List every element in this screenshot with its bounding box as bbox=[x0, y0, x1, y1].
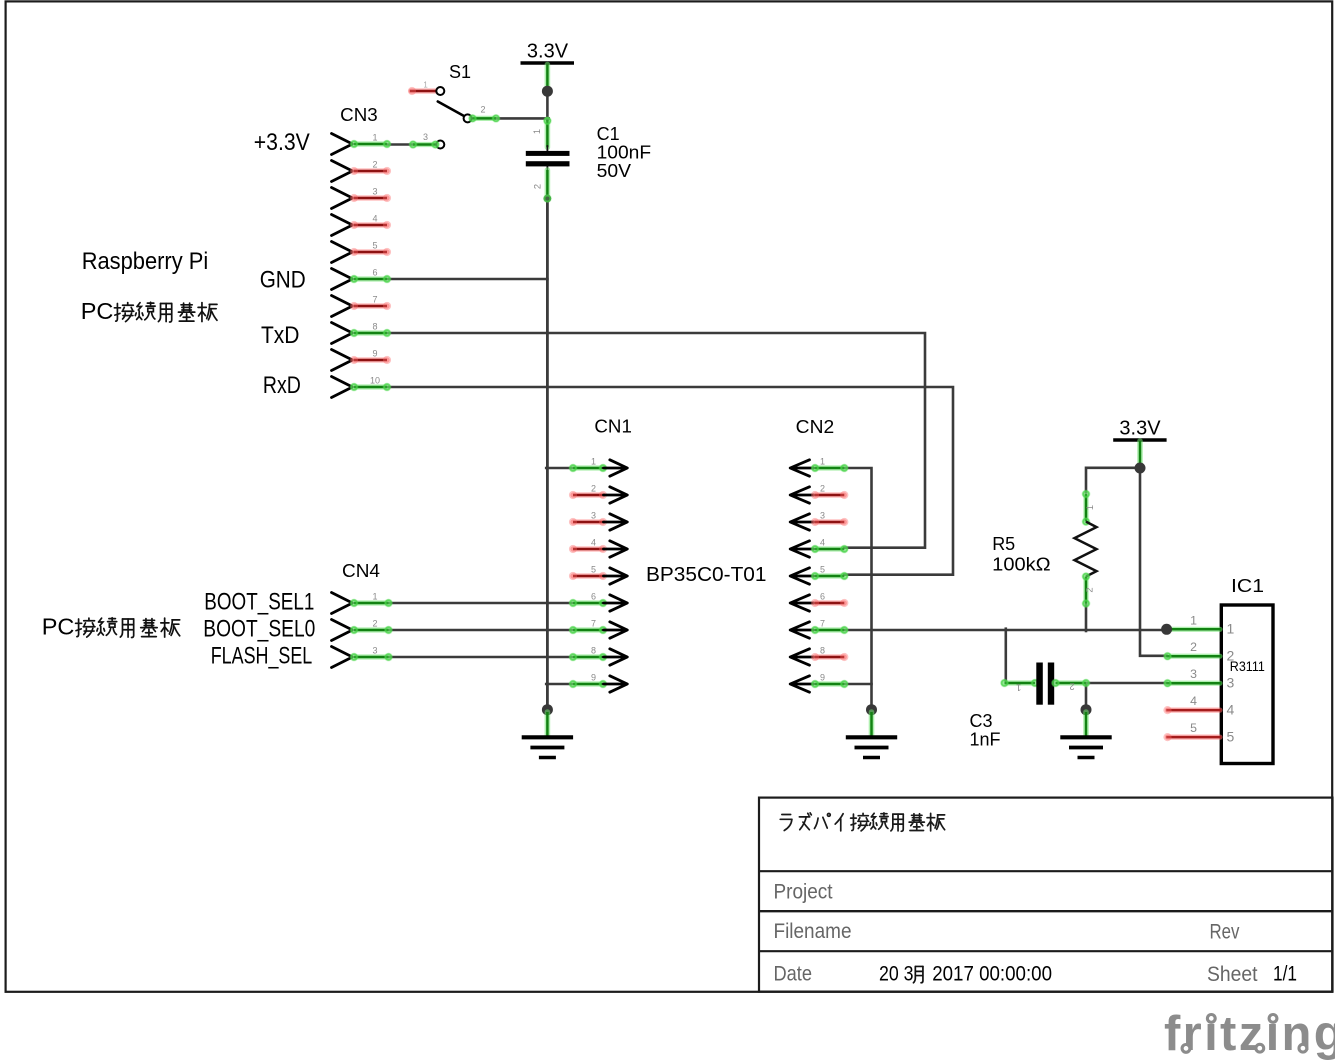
connector CN3 pin 2 bbox=[332, 160, 392, 182]
svg-text:20 3: 20 3 bbox=[879, 963, 914, 986]
svg-text:4: 4 bbox=[591, 538, 596, 548]
svg-text:4: 4 bbox=[1227, 701, 1235, 717]
node junction bus at IC1 pin1 bbox=[1161, 624, 1172, 635]
svg-text:3: 3 bbox=[423, 132, 428, 142]
wire FLASH_SEL net bbox=[389, 656, 572, 658]
svg-text:5: 5 bbox=[372, 241, 377, 251]
capacitor C3 right plate bbox=[1048, 663, 1054, 705]
svg-text:1: 1 bbox=[372, 133, 377, 143]
svg-text:8: 8 bbox=[591, 646, 596, 656]
capacitor C1 value 100nF bbox=[597, 142, 652, 162]
wire BOOT_SEL0 net bbox=[389, 629, 572, 631]
svg-text:2: 2 bbox=[372, 160, 377, 170]
title block divider 1 bbox=[759, 870, 1333, 872]
wire main vertical (C1 pin2 to CN1 ground junction) bbox=[546, 199, 549, 710]
svg-text:2: 2 bbox=[1190, 640, 1197, 654]
connector CN2 pin 6 bbox=[790, 592, 848, 612]
op-amp IC1 label bbox=[1231, 576, 1264, 596]
title block divider 3 bbox=[759, 950, 1333, 952]
op-amp IC1 pin 1 bbox=[1163, 613, 1234, 636]
op-amp IC1 pin 4 bbox=[1163, 694, 1234, 717]
svg-text:1: 1 bbox=[1227, 621, 1235, 637]
capacitor C1 pin2 green lead bbox=[545, 170, 551, 199]
connector CN2 pin 1 bbox=[790, 457, 848, 477]
connector CN3 pin 4 bbox=[332, 214, 392, 236]
svg-text:PC: PC bbox=[42, 614, 75, 640]
svg-text:BP35C0-T01: BP35C0-T01 bbox=[646, 563, 767, 586]
svg-text:1: 1 bbox=[1016, 682, 1021, 692]
op-amp IC1 value R3111 bbox=[1230, 659, 1265, 674]
capacitor C1 pin2 nub bbox=[546, 166, 548, 171]
svg-text:8: 8 bbox=[372, 322, 377, 332]
connector CN4 pin 3 bbox=[332, 646, 393, 668]
connector CN2 pin 7 bbox=[790, 619, 848, 639]
connector CN1 pin 5 bbox=[569, 565, 627, 585]
connector CN1 pin 3 bbox=[569, 511, 627, 531]
connector CN3 pin 3 bbox=[332, 187, 392, 209]
connector CN4 label bbox=[342, 561, 380, 581]
node junction below 3.3V top bbox=[542, 86, 553, 97]
connector CN2 pin 8 bbox=[790, 646, 848, 666]
node C1 pin2 wire junction bbox=[543, 194, 552, 203]
svg-text:FLASH_SEL: FLASH_SEL bbox=[211, 643, 313, 670]
switch S1 pin3 terminal circle bbox=[436, 141, 444, 149]
svg-text:4: 4 bbox=[372, 214, 377, 224]
wire RxD CN3 pin10 to CN2 pin5 bbox=[387, 387, 953, 575]
svg-text:Sheet: Sheet bbox=[1207, 963, 1258, 986]
connector CN1 pin 9 bbox=[569, 673, 628, 693]
title block divider 2 bbox=[759, 910, 1333, 912]
op-amp IC1 pin 5 bbox=[1163, 721, 1234, 744]
svg-text:3: 3 bbox=[372, 187, 377, 197]
svg-text:2: 2 bbox=[533, 184, 543, 189]
svg-text:frıtzıng: frıtzıng bbox=[1164, 1007, 1335, 1061]
wire GND CN3 pin6 to main vertical bbox=[387, 278, 547, 281]
wire C3 pin2 to IC1 pin3 bbox=[1086, 682, 1167, 685]
svg-text:100kΩ: 100kΩ bbox=[992, 555, 1050, 575]
svg-text:1: 1 bbox=[1190, 613, 1197, 627]
connector CN3 pin 7 bbox=[332, 295, 392, 317]
svg-text:4: 4 bbox=[1190, 694, 1197, 708]
svg-text:2: 2 bbox=[1069, 682, 1074, 692]
net label BOOT_SEL1 bbox=[204, 589, 314, 616]
connector CN3 label bbox=[340, 105, 378, 125]
connector CN1 pin 4 bbox=[569, 538, 627, 558]
capacitor C3 pin2 green lead bbox=[1051, 679, 1090, 688]
connector CN1 pin 2 bbox=[569, 484, 627, 504]
connector CN3 pin 5 bbox=[332, 241, 392, 263]
connector CN1 pin 8 bbox=[569, 646, 628, 666]
wire R5 bottom to bus bbox=[1085, 605, 1088, 632]
svg-text:R3111: R3111 bbox=[1230, 659, 1265, 674]
svg-text:CN3: CN3 bbox=[340, 105, 378, 125]
svg-text:BOOT_SEL1: BOOT_SEL1 bbox=[204, 589, 314, 616]
svg-text:TxD: TxD bbox=[261, 322, 300, 349]
title block sheet number bbox=[1273, 963, 1297, 986]
text PC接続用基板 (upper) bbox=[81, 298, 217, 324]
svg-text:2: 2 bbox=[820, 484, 825, 494]
svg-text:CN2: CN2 bbox=[796, 417, 835, 437]
svg-text:3: 3 bbox=[820, 511, 825, 521]
svg-text:C3: C3 bbox=[970, 711, 993, 731]
switch S1 pin2 green lead bbox=[468, 114, 500, 123]
op-amp IC1 pin 2 bbox=[1163, 640, 1234, 663]
switch S1 pin2 number bbox=[480, 105, 485, 115]
svg-text:S1: S1 bbox=[449, 62, 471, 82]
title block sheet title bbox=[780, 813, 944, 831]
net label BOOT_SEL0 bbox=[203, 616, 315, 643]
net label FLASH_SEL bbox=[211, 643, 313, 670]
text PC接続用基板 (lower) bbox=[42, 614, 180, 640]
switch S1 pin1 red stub bbox=[408, 87, 436, 95]
capacitor C1 pin1 nub bbox=[546, 146, 548, 151]
net label GND bbox=[260, 267, 306, 294]
svg-text:2: 2 bbox=[372, 619, 377, 629]
node junction below 3.3V right bbox=[1135, 463, 1146, 474]
connector CN4 pin 1 bbox=[332, 592, 393, 614]
resistor R5 value 100k&#937; bbox=[992, 555, 1050, 575]
ground under CN1 bbox=[522, 712, 573, 758]
connector CN3 pin 1 bbox=[332, 133, 392, 155]
title block Project field bbox=[774, 881, 833, 904]
svg-text:RxD: RxD bbox=[263, 372, 301, 399]
svg-text:10: 10 bbox=[370, 376, 380, 386]
svg-text:6: 6 bbox=[372, 268, 377, 278]
capacitor C3 value 1nF bbox=[970, 730, 1001, 750]
wire main vertical top segment bbox=[546, 91, 549, 120]
svg-text:Raspberry Pi: Raspberry Pi bbox=[82, 248, 209, 275]
resistor R5 pin2 number bbox=[1084, 587, 1094, 592]
svg-text:1: 1 bbox=[591, 457, 596, 467]
net label TxD bbox=[261, 322, 300, 349]
net label RxD bbox=[263, 372, 301, 399]
connector CN2 label bbox=[796, 417, 835, 437]
svg-text:50V: 50V bbox=[597, 161, 631, 181]
svg-text:3: 3 bbox=[1227, 675, 1235, 691]
svg-text:PC: PC bbox=[81, 298, 114, 324]
svg-text:8: 8 bbox=[820, 646, 825, 656]
svg-text:5: 5 bbox=[1227, 728, 1235, 744]
svg-text:CN1: CN1 bbox=[594, 417, 632, 437]
svg-text:GND: GND bbox=[260, 267, 306, 294]
connector CN1 pin 6 bbox=[569, 592, 628, 612]
svg-text:1: 1 bbox=[1085, 505, 1095, 510]
wire S1 pin2 to main vertical bbox=[496, 117, 549, 120]
svg-text:3.3V: 3.3V bbox=[527, 41, 569, 63]
svg-text:2: 2 bbox=[1084, 587, 1094, 592]
switch S1 pin2 terminal circle bbox=[464, 114, 472, 122]
text BP35C0-T01 bbox=[646, 563, 767, 586]
capacitor C3 pin2 number bbox=[1069, 682, 1074, 692]
svg-text:1: 1 bbox=[423, 81, 427, 90]
resistor R5 pin2 green lead bbox=[1082, 572, 1091, 608]
wire TxD CN3 pin8 to CN2 pin4 bbox=[387, 333, 925, 548]
capacitor C1 pin2 number bbox=[533, 184, 543, 189]
svg-text:9: 9 bbox=[591, 673, 596, 683]
svg-text:100nF: 100nF bbox=[597, 142, 652, 162]
op-amp IC1 pin 3 bbox=[1163, 667, 1234, 690]
svg-text:2: 2 bbox=[591, 484, 596, 494]
svg-text:3: 3 bbox=[372, 646, 377, 656]
ground under CN2 bbox=[846, 712, 897, 758]
svg-text:7: 7 bbox=[372, 295, 377, 305]
svg-text:1: 1 bbox=[820, 457, 825, 467]
capacitor C1 pin1 number bbox=[532, 129, 542, 134]
connector CN3 pin 6 bbox=[332, 268, 392, 290]
capacitor C1 bottom plate bbox=[526, 161, 570, 166]
svg-text:3: 3 bbox=[1190, 667, 1197, 681]
svg-text:3: 3 bbox=[591, 511, 596, 521]
capacitor C3 label bbox=[970, 711, 993, 731]
svg-text:9: 9 bbox=[372, 349, 377, 359]
wire 3.3V to IC1 pin2 bbox=[1140, 468, 1167, 656]
title block date value bbox=[879, 963, 1052, 986]
svg-text:3.3V: 3.3V bbox=[1119, 418, 1161, 440]
connector CN3 pin 10 bbox=[332, 376, 392, 398]
title block border bbox=[759, 798, 1333, 992]
net label +3.3V bbox=[254, 129, 310, 156]
node ground junction under CN2 bbox=[866, 704, 877, 715]
title block Sheet field bbox=[1207, 963, 1258, 986]
svg-text:7: 7 bbox=[591, 619, 596, 629]
wire CN3 pin1 to S1 pin3 bbox=[387, 143, 413, 146]
wire CN2 pin1 to ground junction bbox=[844, 468, 871, 710]
wire BOOT_SEL1 net bbox=[389, 602, 572, 604]
resistor R5 pin1 green lead bbox=[1082, 490, 1091, 526]
capacitor C3 pin1 green lead bbox=[1000, 679, 1039, 688]
svg-text:5: 5 bbox=[1190, 721, 1197, 735]
svg-text:Project: Project bbox=[774, 881, 833, 904]
title block Filename field bbox=[774, 920, 852, 943]
svg-text:C1: C1 bbox=[597, 124, 620, 144]
capacitor C1 pin1 green lead bbox=[543, 116, 552, 147]
node ground junction under C3 bbox=[1081, 704, 1092, 715]
connector CN4 pin 2 bbox=[332, 619, 393, 641]
switch S1 pin3 number bbox=[423, 132, 428, 142]
svg-text:1/1: 1/1 bbox=[1273, 963, 1297, 986]
wire CN2 pin9 branch bbox=[844, 683, 871, 686]
svg-text:IC1: IC1 bbox=[1231, 576, 1264, 596]
power symbol 3.3V (right) bbox=[1113, 418, 1166, 468]
svg-text:Date: Date bbox=[774, 963, 813, 986]
svg-text:2: 2 bbox=[1227, 648, 1235, 664]
node ground junction under CN1 bbox=[542, 704, 553, 715]
wire 3.3V to R5 top bbox=[1086, 468, 1140, 493]
svg-text:2: 2 bbox=[480, 105, 485, 115]
switch S1 pin3 green lead bbox=[409, 140, 440, 149]
svg-text:5: 5 bbox=[591, 565, 596, 575]
connector CN3 pin 8 bbox=[332, 322, 392, 344]
svg-text:Filename: Filename bbox=[774, 920, 852, 943]
capacitor C1 top plate bbox=[526, 151, 570, 156]
capacitor C3 pin1 number bbox=[1016, 682, 1021, 692]
title block Date field bbox=[774, 963, 813, 986]
wire CN1 pin1 branch bbox=[546, 467, 572, 470]
capacitor C1 value 50V bbox=[597, 161, 631, 181]
svg-text:6: 6 bbox=[591, 592, 596, 602]
svg-text:2017 00:00:00: 2017 00:00:00 bbox=[927, 963, 1052, 986]
title block Rev field bbox=[1210, 921, 1240, 944]
wire drop to C3 pin1 bbox=[1004, 629, 1007, 683]
switch S1 pin1 terminal circle bbox=[436, 87, 444, 95]
wire bus CN2 pin7 to IC1 pin1 bbox=[844, 629, 1166, 632]
svg-text:4: 4 bbox=[820, 538, 825, 548]
svg-text:R5: R5 bbox=[992, 534, 1015, 554]
connector CN1 label bbox=[594, 417, 632, 437]
connector CN2 pin 4 bbox=[790, 538, 848, 558]
text Raspberry Pi bbox=[82, 248, 209, 275]
resistor R5 label bbox=[992, 534, 1015, 554]
power symbol 3.3V (top) bbox=[521, 41, 575, 91]
svg-text:BOOT_SEL0: BOOT_SEL0 bbox=[203, 616, 315, 643]
ground under C3 bbox=[1060, 712, 1111, 758]
wire C3 pin2 to ground junction bbox=[1085, 683, 1088, 710]
svg-text:CN4: CN4 bbox=[342, 561, 380, 581]
fritzing logo bbox=[1164, 1007, 1335, 1061]
connector CN1 pin 1 bbox=[569, 457, 628, 477]
svg-text:+3.3V: +3.3V bbox=[254, 129, 310, 156]
resistor R5 zigzag body bbox=[1075, 522, 1097, 577]
connector CN2 pin 9 bbox=[790, 673, 848, 693]
connector CN2 pin 2 bbox=[790, 484, 848, 504]
switch S1 lever bbox=[438, 102, 464, 117]
svg-text:5: 5 bbox=[820, 565, 825, 575]
op-amp IC1 body bbox=[1221, 605, 1273, 764]
svg-text:1nF: 1nF bbox=[970, 730, 1001, 750]
svg-text:6: 6 bbox=[820, 592, 825, 602]
wire CN1 pin9 branch bbox=[546, 683, 572, 686]
capacitor C3 left plate bbox=[1036, 663, 1043, 705]
connector CN1 pin 7 bbox=[569, 619, 628, 639]
svg-text:Rev: Rev bbox=[1210, 921, 1240, 944]
resistor R5 pin1 number bbox=[1085, 505, 1095, 510]
capacitor C1 label bbox=[597, 124, 620, 144]
switch S1 label bbox=[449, 62, 471, 82]
connector CN2 pin 5 bbox=[790, 565, 848, 585]
svg-text:9: 9 bbox=[820, 673, 825, 683]
connector CN2 pin 3 bbox=[790, 511, 848, 531]
connector CN3 pin 9 bbox=[332, 349, 392, 371]
switch S1 pin1 number bbox=[423, 81, 427, 90]
svg-text:7: 7 bbox=[820, 619, 825, 629]
svg-text:1: 1 bbox=[532, 129, 542, 134]
svg-text:1: 1 bbox=[372, 592, 377, 602]
